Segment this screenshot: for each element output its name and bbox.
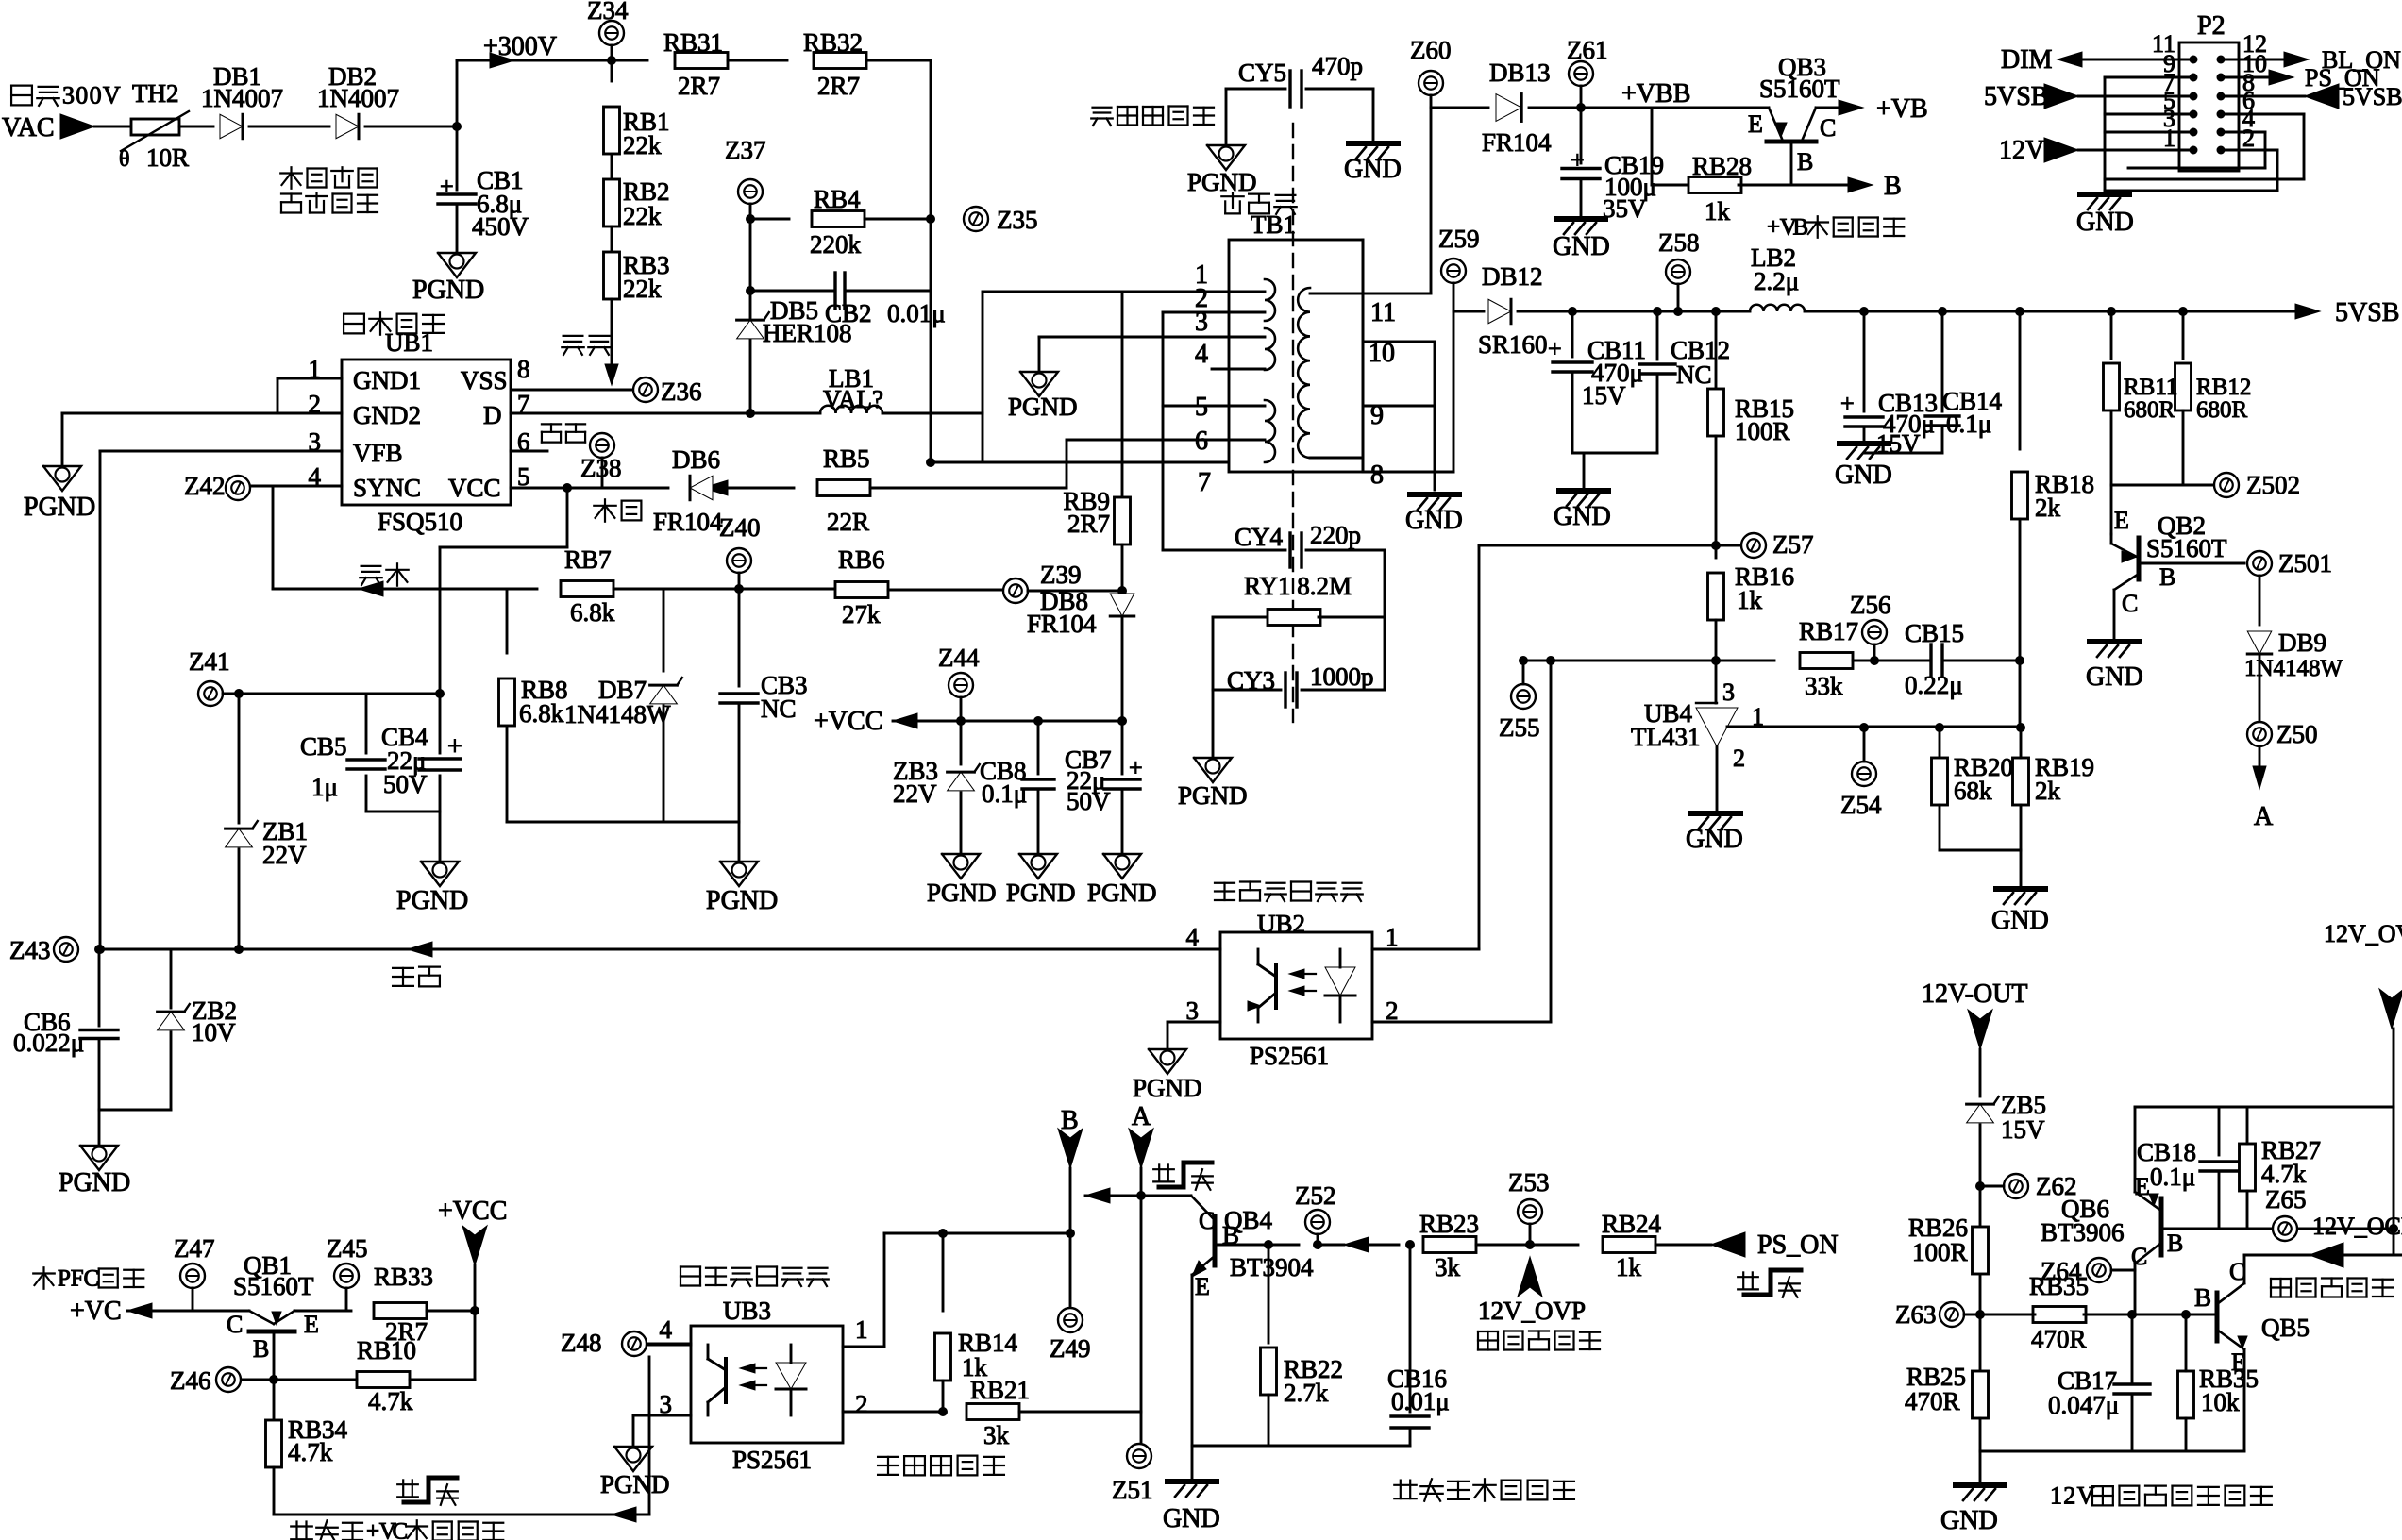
svg-text:Z40: Z40: [719, 513, 761, 542]
svg-text:4.7k: 4.7k: [288, 1438, 333, 1466]
svg-text:C: C: [1820, 114, 1836, 142]
svg-text:+VCC: +VCC: [438, 1197, 507, 1226]
svg-text:C: C: [2122, 590, 2138, 617]
svg-text:1: 1: [1386, 923, 1399, 951]
svg-text:PGND: PGND: [412, 276, 484, 305]
svg-text:27k: 27k: [842, 600, 881, 628]
svg-text:33k: 33k: [1805, 672, 1843, 700]
svg-text:RB4: RB4: [814, 185, 861, 213]
svg-text:RB33: RB33: [374, 1263, 433, 1291]
svg-text:Z55: Z55: [1499, 713, 1540, 742]
svg-text:4: 4: [660, 1315, 673, 1344]
svg-text:1k: 1k: [1705, 197, 1731, 226]
svg-text:GND2: GND2: [353, 401, 421, 429]
svg-text:PGND: PGND: [1178, 781, 1248, 810]
svg-text:15V: 15V: [2001, 1115, 2045, 1144]
svg-text:35V: 35V: [1603, 194, 1647, 223]
svg-text:E: E: [304, 1311, 319, 1338]
svg-text:+VBB: +VBB: [1621, 79, 1690, 109]
svg-text:2k: 2k: [2035, 777, 2061, 805]
svg-text:Z61: Z61: [1567, 36, 1608, 64]
svg-text:FR104: FR104: [1027, 610, 1097, 638]
svg-text:1: 1: [2163, 125, 2175, 152]
svg-text:3: 3: [1722, 678, 1735, 706]
svg-text:Z52: Z52: [1295, 1181, 1336, 1210]
svg-text:RB17: RB17: [1799, 617, 1858, 645]
svg-text:BT3906: BT3906: [2041, 1218, 2125, 1247]
svg-text:RB23: RB23: [1419, 1210, 1479, 1238]
svg-text:15V: 15V: [1582, 381, 1626, 410]
svg-text:4.7k: 4.7k: [2261, 1160, 2307, 1188]
svg-text:PS2561: PS2561: [1250, 1042, 1329, 1070]
svg-text:5: 5: [517, 462, 530, 491]
svg-text:TB1: TB1: [1251, 210, 1296, 239]
svg-text:Z36: Z36: [661, 377, 702, 406]
svg-text:Z501: Z501: [2278, 549, 2332, 577]
svg-text:CB15: CB15: [1905, 619, 1964, 647]
svg-text:22k: 22k: [623, 275, 662, 303]
svg-text:Z48: Z48: [561, 1329, 602, 1357]
svg-text:BT3904: BT3904: [1230, 1253, 1314, 1281]
svg-text:UB3: UB3: [723, 1297, 771, 1325]
svg-text:RY1 8.2M: RY1 8.2M: [1244, 572, 1352, 600]
svg-text:RB7: RB7: [564, 545, 612, 574]
svg-text:UB1: UB1: [385, 328, 433, 357]
svg-text:FSQ510: FSQ510: [378, 508, 462, 536]
svg-text:Z43: Z43: [9, 936, 51, 964]
svg-text:220p: 220p: [1310, 521, 1361, 549]
svg-text:0.022μ: 0.022μ: [13, 1029, 84, 1057]
svg-text:22R: 22R: [827, 508, 869, 536]
svg-text:GND: GND: [1553, 232, 1610, 261]
svg-text:PS_ON: PS_ON: [1757, 1230, 1839, 1260]
svg-text:CY4: CY4: [1235, 523, 1284, 551]
svg-text:1: 1: [1752, 703, 1764, 730]
svg-text:Z47: Z47: [174, 1234, 215, 1263]
svg-text:6.8k: 6.8k: [570, 598, 615, 627]
svg-text:8: 8: [1370, 460, 1384, 490]
svg-text:0.1μ: 0.1μ: [1946, 410, 1991, 438]
svg-text:NC: NC: [761, 695, 797, 723]
svg-text:D: D: [483, 401, 502, 429]
svg-text:0.1μ: 0.1μ: [982, 779, 1027, 808]
svg-text:B: B: [2194, 1283, 2211, 1312]
svg-text:Z39: Z39: [1040, 561, 1082, 589]
svg-text:P: P: [58, 1266, 71, 1292]
svg-text:0: 0: [76, 81, 88, 109]
svg-text:GND: GND: [1686, 825, 1743, 854]
svg-text:RB10: RB10: [357, 1336, 416, 1364]
svg-text:FR104: FR104: [653, 508, 723, 536]
svg-text:VAC: VAC: [2, 113, 55, 142]
svg-text:B: B: [1793, 215, 1809, 241]
svg-text:E: E: [1748, 110, 1763, 138]
svg-text:CY5: CY5: [1238, 59, 1286, 87]
svg-text:DIM: DIM: [2001, 45, 2053, 75]
svg-text:470R: 470R: [2031, 1325, 2087, 1353]
svg-text:S5160T: S5160T: [1759, 75, 1840, 103]
svg-text:TH2: TH2: [132, 79, 179, 108]
svg-text:B: B: [1884, 172, 1902, 201]
svg-text:450V: 450V: [472, 212, 529, 241]
svg-text:12V-OUT: 12V-OUT: [1922, 979, 2028, 1009]
svg-text:QB5: QB5: [2261, 1314, 2310, 1342]
svg-text:GND: GND: [1344, 155, 1402, 184]
svg-text:470R: 470R: [1905, 1387, 1960, 1415]
svg-text:HER108: HER108: [763, 319, 852, 347]
svg-text:2R7: 2R7: [678, 72, 720, 100]
svg-text:GND: GND: [1940, 1506, 1998, 1535]
svg-text:+VCC: +VCC: [814, 707, 882, 736]
svg-text:3k: 3k: [1435, 1253, 1461, 1281]
svg-text:V: V: [103, 81, 121, 109]
svg-text:A: A: [1132, 1102, 1151, 1131]
svg-text:C: C: [227, 1311, 243, 1338]
svg-text:1k: 1k: [1616, 1253, 1642, 1281]
svg-text:Z37: Z37: [725, 136, 766, 164]
svg-text:0.047μ: 0.047μ: [2048, 1391, 2119, 1419]
svg-text:Z64: Z64: [2041, 1257, 2082, 1285]
svg-text:12V: 12V: [1999, 136, 2044, 165]
svg-text:0: 0: [90, 81, 102, 109]
svg-text:22k: 22k: [623, 131, 662, 159]
svg-text:9: 9: [1370, 401, 1384, 430]
svg-text:+: +: [1767, 215, 1780, 241]
svg-text:1μ: 1μ: [311, 773, 338, 801]
svg-text:VFB: VFB: [353, 439, 403, 467]
svg-text:22V: 22V: [262, 841, 307, 869]
svg-text:4: 4: [1186, 923, 1200, 951]
svg-text:5VSB: 5VSB: [2343, 83, 2402, 110]
svg-text:C: C: [84, 1266, 100, 1292]
svg-text:Z502: Z502: [2246, 471, 2300, 499]
svg-text:PGND: PGND: [396, 886, 468, 915]
svg-text:+VC: +VC: [70, 1297, 122, 1326]
svg-text:2: 2: [855, 1390, 868, 1418]
svg-text:PGND: PGND: [600, 1470, 670, 1498]
svg-text:1N4007: 1N4007: [201, 84, 283, 112]
svg-text:2R7: 2R7: [817, 72, 860, 100]
svg-text:12V_OVP: 12V_OVP: [2324, 920, 2402, 947]
svg-text:RB12: RB12: [2196, 375, 2251, 400]
svg-text:SYNC: SYNC: [353, 474, 421, 502]
svg-text:B: B: [2167, 1230, 2183, 1257]
svg-text:1: 1: [855, 1315, 868, 1344]
svg-text:CB5: CB5: [300, 732, 347, 761]
svg-text:1: 1: [2050, 1481, 2062, 1509]
svg-text:TL431: TL431: [1631, 723, 1701, 751]
svg-text:3: 3: [62, 81, 75, 109]
svg-text:50V: 50V: [1067, 787, 1111, 815]
svg-text:RB11: RB11: [2124, 375, 2177, 400]
svg-text:10R: 10R: [146, 143, 189, 172]
svg-text:12V_OCP: 12V_OCP: [2312, 1213, 2402, 1240]
svg-text:6.8k: 6.8k: [519, 699, 564, 728]
svg-text:3k: 3k: [983, 1421, 1010, 1449]
svg-text:P2: P2: [2197, 11, 2226, 41]
svg-text:DB12: DB12: [1482, 262, 1543, 291]
svg-text:Z56: Z56: [1850, 591, 1891, 619]
svg-text:10: 10: [1369, 339, 1395, 368]
svg-text:470p: 470p: [1312, 52, 1363, 80]
svg-text:3: 3: [660, 1390, 673, 1418]
svg-text:Z54: Z54: [1840, 791, 1882, 819]
svg-text:50V: 50V: [383, 770, 428, 798]
svg-text:68k: 68k: [1954, 777, 1992, 805]
svg-text:PGND: PGND: [1133, 1074, 1202, 1102]
svg-text:4.7k: 4.7k: [368, 1387, 413, 1415]
svg-text:FR104: FR104: [1482, 128, 1552, 157]
svg-text:B: B: [1061, 1106, 1079, 1135]
svg-text:+: +: [1840, 390, 1855, 417]
svg-text:Z58: Z58: [1658, 228, 1700, 257]
svg-text:GND: GND: [1405, 506, 1463, 535]
svg-text:2R7: 2R7: [1067, 510, 1110, 538]
svg-text:RB6: RB6: [838, 545, 885, 574]
svg-text:+VB: +VB: [1876, 94, 1928, 124]
svg-text:VSS: VSS: [461, 366, 508, 394]
svg-text:1N4148W: 1N4148W: [564, 700, 671, 728]
svg-text:GND: GND: [1554, 502, 1611, 531]
svg-text:Z35: Z35: [997, 206, 1038, 234]
svg-text:PGND: PGND: [1187, 168, 1257, 196]
svg-text:PGND: PGND: [24, 493, 95, 522]
svg-text:VCC: VCC: [448, 474, 501, 502]
svg-text:NC: NC: [1676, 360, 1712, 389]
svg-text:PGND: PGND: [1006, 879, 1076, 907]
svg-text:Z46: Z46: [170, 1366, 211, 1395]
svg-text:1N4007: 1N4007: [317, 84, 399, 112]
svg-text:100R: 100R: [1735, 417, 1790, 445]
svg-text:E: E: [1195, 1273, 1210, 1300]
svg-text:7: 7: [1198, 468, 1211, 497]
svg-text:GND: GND: [1991, 906, 2049, 935]
svg-text:5VSB: 5VSB: [2335, 298, 2399, 327]
svg-text:B: B: [1797, 148, 1813, 176]
svg-text:100R: 100R: [1912, 1238, 1968, 1266]
svg-text:0.1μ: 0.1μ: [2150, 1163, 2195, 1191]
svg-text:Z59: Z59: [1438, 225, 1480, 253]
svg-text:1k: 1k: [1737, 586, 1763, 614]
svg-text:680R: 680R: [2124, 397, 2175, 423]
svg-text:PGND: PGND: [59, 1168, 130, 1197]
svg-text:10k: 10k: [2201, 1388, 2240, 1416]
svg-text:1000p: 1000p: [1310, 662, 1374, 691]
svg-text:GND: GND: [2086, 662, 2143, 692]
svg-text:Z53: Z53: [1508, 1168, 1550, 1197]
svg-text:2: 2: [1386, 996, 1399, 1025]
svg-text:GND: GND: [1835, 460, 1892, 490]
svg-text:GND: GND: [2076, 208, 2134, 237]
svg-text:2: 2: [2063, 1481, 2075, 1509]
svg-text:PS2561: PS2561: [732, 1446, 812, 1474]
svg-text:E: E: [2135, 1173, 2150, 1200]
svg-text:RB24: RB24: [1602, 1210, 1662, 1238]
svg-text:12V_OVP: 12V_OVP: [1478, 1297, 1586, 1325]
svg-text:2.2μ: 2.2μ: [1754, 267, 1799, 295]
svg-text:2: 2: [1733, 745, 1745, 772]
svg-text:Z45: Z45: [327, 1234, 368, 1263]
svg-text:5: 5: [1195, 393, 1208, 422]
svg-text:E: E: [2114, 507, 2129, 534]
svg-text:SR160: SR160: [1478, 330, 1548, 359]
svg-text:22V: 22V: [893, 779, 937, 808]
svg-text:Z65: Z65: [2265, 1185, 2307, 1214]
svg-text:PGND: PGND: [1008, 393, 1078, 421]
svg-text:0.01μ: 0.01μ: [1391, 1387, 1450, 1415]
svg-text:11: 11: [1370, 298, 1396, 327]
svg-text:Z41: Z41: [189, 647, 230, 676]
svg-text:DB6: DB6: [672, 445, 720, 474]
svg-text:Z50: Z50: [2276, 720, 2318, 748]
svg-text:DB13: DB13: [1489, 59, 1551, 87]
svg-text:6: 6: [1195, 427, 1208, 456]
svg-text:220k: 220k: [810, 230, 862, 259]
svg-text:Z42: Z42: [184, 472, 226, 500]
svg-text:PGND: PGND: [1087, 879, 1157, 907]
svg-text:5VSB: 5VSB: [1984, 82, 2048, 111]
svg-text:3: 3: [1195, 308, 1208, 337]
svg-text:+: +: [1548, 335, 1562, 362]
svg-text:DB9: DB9: [2278, 628, 2326, 657]
svg-text:Z49: Z49: [1050, 1334, 1091, 1363]
svg-text:2.7k: 2.7k: [1284, 1379, 1329, 1407]
svg-text:Z57: Z57: [1772, 530, 1814, 559]
svg-text:Z51: Z51: [1112, 1476, 1153, 1504]
svg-text:θ: θ: [119, 147, 130, 172]
svg-text:S5160T: S5160T: [233, 1272, 314, 1300]
svg-text:0.01μ: 0.01μ: [887, 299, 946, 327]
svg-text:A: A: [2254, 802, 2274, 831]
svg-text:4: 4: [1195, 340, 1208, 369]
svg-text:GND: GND: [1163, 1504, 1220, 1533]
svg-text:RB5: RB5: [823, 444, 870, 473]
svg-text:2: 2: [2242, 125, 2255, 152]
svg-text:+: +: [1129, 754, 1143, 781]
svg-text:3: 3: [1186, 996, 1200, 1025]
svg-text:PGND: PGND: [927, 879, 997, 907]
svg-text:Z44: Z44: [938, 644, 980, 672]
svg-text:PGND: PGND: [706, 886, 778, 915]
svg-text:Z63: Z63: [1895, 1300, 1937, 1329]
svg-text:B: B: [2159, 563, 2175, 591]
svg-text:680R: 680R: [2196, 397, 2248, 423]
svg-text:8: 8: [517, 355, 530, 383]
svg-text:0.22μ: 0.22μ: [1905, 671, 1963, 699]
svg-text:Z60: Z60: [1410, 36, 1452, 64]
svg-text:+: +: [366, 1519, 379, 1540]
svg-text:22k: 22k: [623, 202, 662, 230]
svg-text:F: F: [71, 1266, 84, 1292]
svg-text:2k: 2k: [2035, 494, 2061, 522]
svg-text:10V: 10V: [192, 1018, 236, 1046]
svg-text:S5160T: S5160T: [2146, 534, 2227, 562]
svg-text:GND1: GND1: [353, 366, 421, 394]
svg-text:RB21: RB21: [970, 1376, 1030, 1404]
svg-text:C: C: [393, 1519, 409, 1540]
svg-text:B: B: [253, 1335, 269, 1363]
